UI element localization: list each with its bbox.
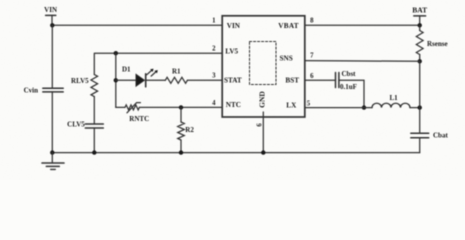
op-amp U1 charger IC box: [222, 16, 305, 117]
pin 2: [212, 45, 216, 52]
junction VIN rail: [50, 23, 54, 27]
junction SNS node: [418, 59, 422, 63]
resistor R1: [165, 67, 187, 83]
capacitor Cvin: [24, 86, 64, 94]
wire RNTC row: [116, 106, 125, 108]
pin 6: [310, 73, 314, 80]
junction Cbst LX: [362, 105, 366, 109]
junction LV5 tap: [114, 51, 118, 55]
wire Cvin to ground rail: [51, 92, 53, 153]
junction BAT rail: [418, 23, 422, 27]
wire pin 6 BST to Cbst: [305, 79, 336, 81]
wire pin 7 SNS row: [305, 60, 420, 63]
wire RNTC to pin 4: [139, 106, 222, 108]
wire Rsense to SNS node: [419, 55, 421, 62]
capacitor Cbst: [336, 70, 357, 91]
junction D1 anode: [114, 78, 118, 82]
wire LV5 row from RLV5 top to pin 2: [94, 53, 222, 74]
wire D1 anode row: [116, 79, 136, 81]
wire VIN column down to Cvin: [51, 25, 53, 88]
resistor RLV5: [71, 75, 98, 97]
ground: [42, 153, 64, 170]
wire LV5 tap down to D1 anode and RNTC: [115, 53, 117, 107]
wire D1 to R1: [146, 79, 166, 81]
wire bottom ground rail: [52, 152, 419, 154]
wire R2 to ground rail: [180, 140, 182, 153]
wire pin 8 to BAT rail: [305, 24, 420, 26]
junction CLV5 ground: [92, 150, 96, 154]
pin 4: [212, 100, 216, 107]
wire NTC node to R2: [180, 107, 182, 122]
pin 1: [212, 18, 216, 25]
wire CLV5 to ground rail: [93, 128, 95, 153]
junction ground rail left: [50, 150, 54, 154]
node VIN label: [44, 6, 57, 26]
pin 7: [310, 53, 314, 60]
capacitor Cbat: [411, 131, 449, 139]
wire R1 to pin 3: [187, 79, 222, 81]
wire GND pin to ground rail: [262, 112, 264, 153]
pin 3: [212, 73, 216, 80]
resistor Rsense: [416, 31, 447, 55]
inductor L1: [372, 94, 410, 107]
wire Cbat to ground rail: [419, 138, 421, 153]
wire BAT rail down to Cbat: [419, 61, 421, 133]
pin 5: [307, 100, 311, 107]
node BAT label: [412, 6, 427, 26]
junction L1 rail: [418, 105, 422, 109]
capacitor CLV5: [67, 120, 103, 128]
pin 8: [310, 17, 314, 24]
wire Cbst to LX node: [339, 80, 364, 107]
junction GND ground rail: [261, 150, 265, 154]
LED D1: [122, 66, 158, 87]
dashed internal block: [250, 42, 277, 85]
junction R2 ground: [179, 150, 183, 154]
thermistor RNTC: [125, 103, 149, 123]
resistor R2: [178, 122, 195, 140]
wire BAT to Rsense: [419, 25, 421, 30]
wire top rail VIN to pin 1: [52, 24, 222, 26]
junction NTC node: [179, 105, 183, 109]
wire pin 5 LX row: [305, 107, 372, 109]
pin 9: [254, 123, 261, 127]
wire L1 to BAT rail: [410, 107, 420, 109]
wire RLV5 to CLV5: [93, 97, 95, 124]
